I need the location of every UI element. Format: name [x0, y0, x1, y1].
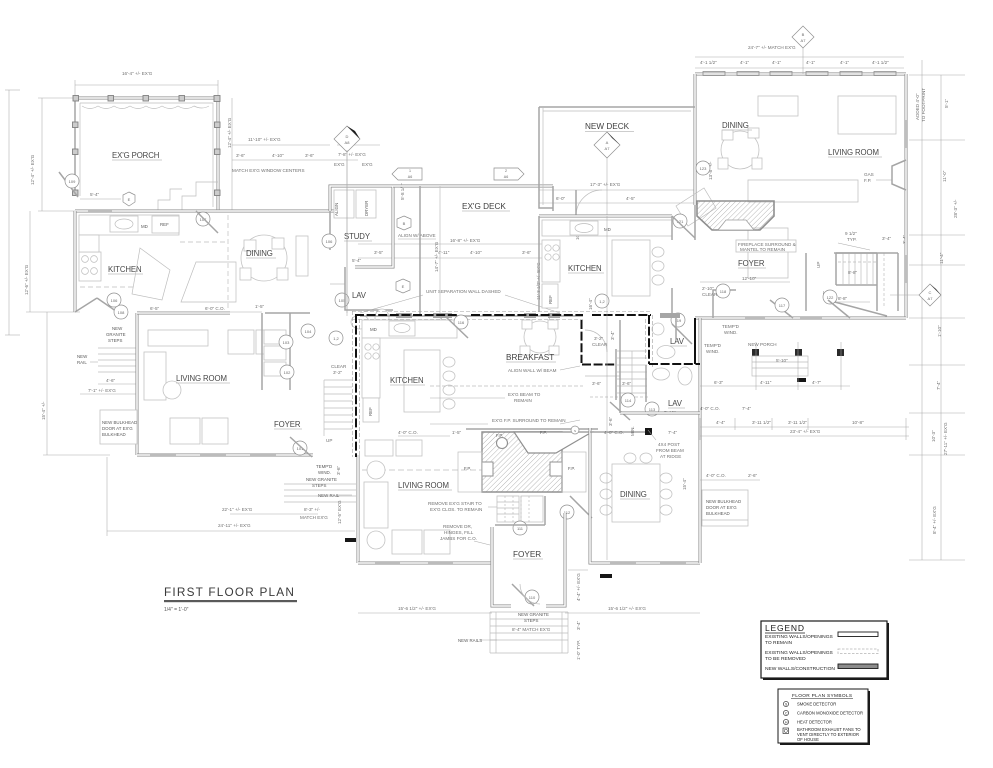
svg-text:4'-1": 4'-1" [840, 60, 850, 65]
diamond A/A7 [594, 132, 620, 158]
kitchen/foyer separation wall right [671, 216, 673, 240]
svg-text:7'-8" +/- EX'G: 7'-8" +/- EX'G [338, 152, 366, 157]
svg-text:B: B [802, 32, 805, 37]
window blocks on separation wall [396, 313, 680, 318]
kitchen top wall [75, 210, 345, 213]
svg-text:3'-5": 3'-5" [374, 250, 384, 255]
svg-text:EX'G CLOS. TO REMAIN: EX'G CLOS. TO REMAIN [430, 507, 482, 512]
svg-text:15'-4": 15'-4" [682, 478, 687, 490]
svg-text:6'-0": 6'-0" [556, 196, 566, 201]
svg-text:8'-4" +/- EX'G: 8'-4" +/- EX'G [932, 506, 937, 534]
svg-text:3'-6": 3'-6" [592, 381, 602, 386]
kitchen counters/appliances [79, 215, 179, 235]
svg-text:7'-4": 7'-4" [742, 406, 752, 411]
unit separation wall flanking dashes [352, 311, 651, 313]
right margin chains [909, 74, 965, 76]
wall horizontal main [355, 314, 459, 316]
svg-text:LAV: LAV [670, 337, 685, 346]
svg-text:DINING: DINING [246, 249, 273, 258]
svg-text:22'-1" +/- EX'G: 22'-1" +/- EX'G [222, 507, 253, 512]
svg-text:TEMP'D: TEMP'D [722, 324, 740, 329]
deck door swing [576, 190, 602, 216]
right wing west wall [699, 318, 702, 413]
svg-text:12'-6" +/- EX'G: 12'-6" +/- EX'G [24, 264, 29, 295]
svg-text:9 1/2": 9 1/2" [845, 231, 857, 236]
svg-text:2'-10": 2'-10" [702, 286, 714, 291]
svg-text:REMOVE DR,: REMOVE DR, [443, 524, 472, 529]
svg-text:4'-0" C.O.: 4'-0" C.O. [706, 473, 726, 478]
dashed removed walls in left unit [227, 215, 229, 310]
svg-text:ALIGN WALL W/ BEAM: ALIGN WALL W/ BEAM [508, 368, 557, 373]
svg-text:MANTEL TO REMAIN: MANTEL TO REMAIN [740, 247, 785, 252]
svg-text:DINING: DINING [722, 121, 749, 130]
svg-text:4'-4": 4'-4" [716, 420, 726, 425]
svg-text:11'-4": 11'-4" [939, 252, 944, 264]
top right dim chain [695, 56, 904, 58]
svg-text:4'-5": 4'-5" [626, 196, 636, 201]
svg-text:3'-6": 3'-6" [522, 250, 532, 255]
svg-text:MD: MD [141, 224, 148, 229]
svg-text:AT RIDGE: AT RIDGE [660, 454, 681, 459]
hall dashes near center stairs [590, 396, 648, 398]
svg-text:UNIT SEPARATION WALL DASHED: UNIT SEPARATION WALL DASHED [426, 289, 501, 294]
svg-text:111: 111 [517, 526, 524, 531]
diamond D/A8 [334, 126, 360, 152]
svg-text:WIND.: WIND. [706, 349, 720, 354]
svg-text:MD: MD [604, 227, 611, 232]
black dash below dining [600, 574, 612, 578]
svg-text:MATCH EX'G WINDOW CENTERS: MATCH EX'G WINDOW CENTERS [232, 168, 305, 173]
svg-text:FLOOR PLAN SYMBOLS: FLOOR PLAN SYMBOLS [792, 693, 852, 699]
hexagon E [396, 279, 410, 293]
legend box [761, 621, 887, 678]
svg-text:4'-10": 4'-10" [272, 153, 284, 158]
svg-text:109: 109 [69, 179, 76, 184]
center stair flight [324, 380, 352, 436]
svg-text:123: 123 [700, 166, 707, 171]
dims above study [330, 159, 358, 161]
right unit top wall [695, 73, 906, 76]
svg-text:STUDY: STUDY [344, 232, 371, 241]
svg-text:10'-3": 10'-3" [931, 430, 936, 442]
svg-text:EXISTING WALLS/OPENINGS: EXISTING WALLS/OPENINGS [765, 650, 833, 656]
dashed beam center living [362, 469, 488, 471]
svg-text:6'-3": 6'-3" [714, 380, 724, 385]
carbon monoxide detector [783, 710, 788, 715]
svg-text:15'-6 1/2" +/- EX'G: 15'-6 1/2" +/- EX'G [398, 606, 436, 611]
svg-text:DOOR AT EX'G: DOOR AT EX'G [102, 426, 133, 431]
svg-text:108: 108 [118, 310, 125, 315]
svg-text:3'-2": 3'-2" [333, 370, 343, 375]
svg-text:4'-1 1/2": 4'-1 1/2" [872, 60, 889, 65]
svg-text:EX'G F.P. SURROUND TO REMAIN: EX'G F.P. SURROUND TO REMAIN [492, 418, 566, 423]
smoke detector circle [571, 426, 579, 434]
living room left block walls [136, 313, 139, 455]
svg-text:3'-4": 3'-4" [576, 620, 581, 630]
living room furniture [148, 330, 208, 346]
lav walls gray [619, 320, 621, 364]
lav left [345, 267, 393, 310]
dining table center [612, 464, 660, 522]
svg-text:A7: A7 [801, 38, 807, 43]
svg-text:5'-4": 5'-4" [90, 192, 100, 197]
top B/A7 diamond [792, 26, 814, 48]
svg-text:5'-1": 5'-1" [944, 98, 949, 108]
hexagon E near kitchen door [123, 192, 135, 206]
svg-text:BREAKFAST: BREAKFAST [506, 353, 554, 362]
door arc foyer center [585, 330, 607, 352]
svg-text:OF HOUSE: OF HOUSE [797, 737, 819, 742]
svg-text:NEW BULKHEAD: NEW BULKHEAD [102, 420, 137, 425]
svg-text:C: C [929, 290, 932, 295]
svg-text:BULKHEAD: BULKHEAD [706, 511, 730, 516]
svg-text:TO FOOTPRINT: TO FOOTPRINT [921, 88, 926, 122]
svg-text:4'-1 1/2": 4'-1 1/2" [700, 60, 717, 65]
svg-text:GAS: GAS [864, 172, 874, 177]
svg-text:7'-4": 7'-4" [936, 380, 941, 390]
svg-text:FOYER: FOYER [738, 259, 765, 268]
wall vertical left of center [355, 314, 357, 457]
svg-text:TEMP'D: TEMP'D [704, 343, 722, 348]
svg-text:4'-11": 4'-11" [760, 380, 772, 385]
bathroom exhaust [783, 728, 789, 734]
svg-text:6'-5": 6'-5" [150, 306, 160, 311]
svg-text:STEPS: STEPS [108, 338, 122, 343]
svg-text:3'-11 1/2": 3'-11 1/2" [788, 420, 807, 425]
svg-text:8'-8": 8'-8" [848, 270, 858, 275]
svg-text:1'-10": 1'-10" [937, 325, 942, 337]
svg-text:CLEAR: CLEAR [331, 364, 347, 369]
study furniture: dryer/washer [334, 190, 354, 218]
svg-text:28'-3" +/-: 28'-3" +/- [953, 199, 958, 218]
svg-text:4X4 POST: 4X4 POST [658, 442, 680, 447]
center kitchen walls: top wall gray under black [360, 315, 583, 317]
new porch [752, 349, 844, 356]
stairs right [838, 253, 884, 308]
svg-text:UP: UP [326, 438, 332, 443]
svg-text:3'-4": 3'-4" [610, 330, 615, 340]
svg-text:REF: REF [160, 222, 169, 227]
svg-text:A6: A6 [504, 175, 508, 179]
kitchen right [539, 215, 672, 218]
granite steps below foyer [490, 612, 568, 653]
svg-text:2'-6": 2'-6" [748, 473, 758, 478]
small foyer closet [713, 290, 736, 318]
svg-text:1,2: 1,2 [599, 299, 605, 304]
svg-text:16'-4" +/- EX'G: 16'-4" +/- EX'G [122, 71, 153, 76]
new deck [539, 107, 553, 208]
svg-text:REF: REF [548, 295, 553, 304]
svg-text:FIRST FLOOR PLAN: FIRST FLOOR PLAN [164, 585, 295, 599]
beam dashed [430, 385, 583, 387]
svg-text:LIVING ROOM: LIVING ROOM [828, 148, 879, 157]
svg-text:EXISTING WALLS/OPENINGS: EXISTING WALLS/OPENINGS [765, 634, 833, 640]
svg-text:122: 122 [827, 295, 834, 300]
svg-text:NEW: NEW [112, 326, 123, 331]
svg-text:GRANITE: GRANITE [106, 332, 126, 337]
closet below fp [497, 496, 519, 522]
svg-text:LEGEND: LEGEND [765, 623, 805, 633]
svg-text:F.P.: F.P. [496, 433, 503, 438]
svg-text:3'-2": 3'-2" [594, 336, 604, 341]
island kitchen left [132, 248, 170, 300]
pentagon labels 1/A6 2/A6 [392, 168, 524, 180]
svg-text:103: 103 [283, 340, 290, 345]
center living room walls [357, 455, 360, 563]
svg-text:2: 2 [505, 169, 507, 173]
svg-text:NEW GRANITE: NEW GRANITE [306, 477, 337, 482]
deck top wall [393, 185, 553, 188]
svg-text:A7: A7 [928, 296, 934, 301]
svg-text:D: D [346, 134, 349, 139]
porch steps to kitchen [182, 182, 218, 211]
left vertical dim kitchen [29, 211, 31, 312]
foyer bump center [492, 527, 511, 606]
svg-text:EX'G: EX'G [334, 162, 345, 167]
breakfast [524, 321, 556, 353]
svg-text:REF: REF [368, 407, 373, 416]
dim line above porch [75, 84, 218, 86]
svg-text:F.P.: F.P. [540, 430, 547, 435]
svg-text:6'-0" C.O.: 6'-0" C.O. [205, 306, 225, 311]
svg-text:NEW GRANITE: NEW GRANITE [518, 612, 549, 617]
C/A7 diamond right [919, 284, 941, 306]
porch corner diagonal + door 109 [59, 172, 78, 197]
svg-text:A6: A6 [408, 175, 412, 179]
closet shelves between dining and foyer [264, 330, 286, 344]
dims above kitchen wall (match exg window centers) [232, 159, 330, 161]
svg-text:DINING: DINING [620, 490, 647, 499]
svg-text:CLEAR: CLEAR [592, 342, 608, 347]
svg-text:1: 1 [409, 169, 411, 173]
svg-text:E: E [128, 197, 131, 202]
svg-text:NEW BULKHEAD: NEW BULKHEAD [706, 499, 741, 504]
4x4 post black square [645, 428, 652, 435]
svg-text:LAV: LAV [668, 399, 683, 408]
svg-text:116: 116 [458, 320, 465, 325]
study walls [330, 186, 393, 267]
svg-text:106: 106 [326, 239, 333, 244]
svg-text:12'-4" +/- EX'G: 12'-4" +/- EX'G [227, 117, 232, 148]
svg-text:12'-4" +/- EX'G: 12'-4" +/- EX'G [30, 154, 35, 185]
lav interior wall [675, 318, 677, 340]
new deck dims [539, 189, 695, 191]
svg-text:8'-3" +/-: 8'-3" +/- [304, 507, 320, 512]
left unit left wall [74, 211, 77, 312]
svg-text:LIVING ROOM: LIVING ROOM [176, 374, 227, 383]
new bulkhead door note box [100, 410, 137, 444]
svg-text:EX'G PORCH: EX'G PORCH [112, 151, 159, 160]
svg-text:15'-4" +/-: 15'-4" +/- [41, 401, 46, 420]
svg-text:F.P.: F.P. [568, 466, 575, 471]
svg-text:4'-0" C.O.: 4'-0" C.O. [398, 430, 418, 435]
svg-text:MD: MD [370, 327, 377, 332]
svg-text:JAMBS FOR C.O.: JAMBS FOR C.O. [440, 536, 477, 541]
svg-text:27'-11" +/- EX'G: 27'-11" +/- EX'G [943, 422, 948, 455]
svg-text:WIND.: WIND. [724, 330, 738, 335]
svg-text:WIND.: WIND. [318, 470, 331, 475]
svg-text:8'-8": 8'-8" [838, 296, 848, 301]
svg-text:TYP.: TYP. [847, 237, 857, 242]
svg-text:16'-8" +/- EX'G: 16'-8" +/- EX'G [450, 238, 481, 243]
fireplace center hatched [466, 428, 598, 430]
svg-text:A7: A7 [605, 146, 611, 151]
svg-text:3'-6": 3'-6" [336, 465, 341, 475]
heat detector [783, 719, 788, 724]
new bulkhead right of dining [702, 490, 748, 526]
room ex'g porch walls [75, 98, 218, 211]
svg-text:10'-8": 10'-8" [852, 420, 864, 425]
svg-text:4'-7": 4'-7" [812, 380, 822, 385]
deck vertical edge lines [419, 186, 421, 316]
svg-text:7'-1" +/- EX'G: 7'-1" +/- EX'G [88, 388, 116, 393]
svg-text:EX'G DECK: EX'G DECK [462, 202, 506, 211]
right unit bottom wall [695, 317, 906, 320]
svg-text:1'-5": 1'-5" [255, 304, 265, 309]
svg-text:HEAT DETECTOR: HEAT DETECTOR [797, 720, 832, 725]
kitchen counters center [362, 320, 457, 338]
svg-text:HINGES, FILL: HINGES, FILL [444, 530, 474, 535]
svg-text:14'-7" +/- EX'G: 14'-7" +/- EX'G [434, 241, 439, 272]
svg-text:3'-6": 3'-6" [305, 153, 315, 158]
svg-text:FOYER: FOYER [274, 420, 301, 429]
svg-text:104: 104 [305, 329, 312, 334]
svg-text:S: S [574, 429, 576, 433]
svg-text:MATCH EX'G: MATCH EX'G [300, 515, 328, 520]
svg-text:17'-3" +/- EX'G: 17'-3" +/- EX'G [590, 182, 621, 187]
svg-text:113: 113 [649, 407, 656, 412]
lav lower-right fixtures [653, 368, 670, 380]
svg-text:B: B [403, 221, 406, 226]
lav upper-right fixtures [652, 323, 664, 335]
svg-text:3'-6": 3'-6" [622, 381, 632, 386]
svg-text:E: E [402, 284, 405, 289]
svg-text:16'-4": 16'-4" [588, 298, 593, 310]
svg-text:3'-11 1/2": 3'-11 1/2" [752, 420, 771, 425]
vertical ref lines through plan [606, 216, 608, 560]
svg-text:KITCHEN: KITCHEN [390, 376, 424, 385]
svg-text:1/4" = 1'-0": 1/4" = 1'-0" [164, 607, 189, 613]
svg-text:106: 106 [111, 298, 118, 303]
far-left margin dim line [8, 90, 10, 335]
svg-text:NEW RAILS: NEW RAILS [458, 638, 482, 643]
symbols shadow [780, 691, 870, 745]
svg-text:STEPS: STEPS [524, 618, 538, 623]
svg-text:NEW PORCH: NEW PORCH [748, 342, 777, 347]
legend shadow [763, 623, 889, 680]
svg-text:RAIL: RAIL [77, 360, 87, 365]
entry stoop steps bottom-left [284, 484, 356, 502]
svg-text:23'-4" +/- EX'G: 23'-4" +/- EX'G [790, 429, 821, 434]
smoke detector [783, 701, 788, 706]
left vertical dim porch [41, 98, 43, 211]
svg-text:11'-0": 11'-0" [942, 170, 947, 182]
bay with new granite steps lower-left [75, 298, 97, 312]
svg-text:8'-4" MATCH EX'G: 8'-4" MATCH EX'G [512, 627, 551, 632]
svg-text:7'-4": 7'-4" [668, 430, 678, 435]
svg-text:ALIGN: ALIGN [334, 203, 339, 216]
right fireplace hatched [697, 201, 774, 230]
svg-text:F.P.: F.P. [864, 178, 871, 183]
svg-text:1,2: 1,2 [333, 336, 339, 341]
svg-text:F.P.: F.P. [464, 466, 471, 471]
svg-text:BULKHEAD: BULKHEAD [102, 432, 126, 437]
svg-text:5'-10": 5'-10" [776, 358, 788, 363]
svg-text:4'-1": 4'-1" [740, 60, 750, 65]
left vertical dim living room [46, 312, 48, 455]
svg-text:4'-6": 4'-6" [106, 378, 116, 383]
svg-text:15'-6 1/2" +/- EX'G: 15'-6 1/2" +/- EX'G [608, 606, 646, 611]
svg-text:4'-10": 4'-10" [470, 250, 482, 255]
svg-text:4'-1": 4'-1" [806, 60, 816, 65]
svg-text:3'-6": 3'-6" [608, 416, 613, 426]
svg-text:1'-0" TYP.: 1'-0" TYP. [576, 640, 581, 660]
svg-text:EX'G: EX'G [362, 162, 373, 167]
svg-text:TO BE REMOVED: TO BE REMOVED [765, 656, 806, 662]
svg-text:3'-4": 3'-4" [882, 236, 892, 241]
svg-text:CLEAR: CLEAR [702, 292, 718, 297]
svg-text:12'-5" EX'G: 12'-5" EX'G [337, 500, 342, 524]
svg-text:LIVING ROOM: LIVING ROOM [398, 481, 449, 490]
porch columns [73, 96, 221, 196]
stair flight right-center (foyer) [617, 351, 647, 398]
svg-text:DRYER: DRYER [364, 201, 369, 216]
hexagon B [397, 216, 411, 230]
svg-text:11'-10" +/- EX'G: 11'-10" +/- EX'G [248, 137, 281, 142]
svg-text:TEMP'D: TEMP'D [316, 464, 332, 469]
dining table left [241, 235, 287, 281]
svg-text:24'-11" +/- EX'G: 24'-11" +/- EX'G [218, 523, 251, 528]
svg-text:4'-1": 4'-1" [772, 60, 782, 65]
svg-text:NEW RAIL: NEW RAIL [318, 493, 340, 498]
right-of-porch vertical dim [231, 98, 233, 211]
svg-text:CARBON MONOXIDE DETECTOR: CARBON MONOXIDE DETECTOR [797, 711, 863, 716]
center island [404, 350, 440, 412]
svg-text:ADDED 4'-0": ADDED 4'-0" [915, 93, 920, 120]
svg-text:FOYER: FOYER [513, 550, 541, 559]
svg-text:114: 114 [625, 398, 632, 403]
svg-text:4'-4" +/- EX'G: 4'-4" +/- EX'G [576, 573, 581, 601]
svg-text:NEW: NEW [77, 354, 88, 359]
stairwell walls right [834, 252, 898, 254]
svg-text:EX'G BEAM TO: EX'G BEAM TO [508, 392, 541, 397]
svg-text:1'-5": 1'-5" [452, 430, 462, 435]
svg-text:LAV: LAV [352, 291, 367, 300]
gas fp niche [892, 160, 906, 190]
wall vertical right [648, 315, 650, 364]
svg-text:4'-0" C.O.: 4'-0" C.O. [700, 406, 720, 411]
symbols box [778, 689, 868, 743]
svg-text:102: 102 [284, 370, 291, 375]
svg-text:TO REMAIN: TO REMAIN [765, 640, 793, 646]
svg-text:UP: UP [816, 262, 821, 268]
svg-text:SMOKE DETECTOR: SMOKE DETECTOR [797, 702, 836, 707]
svg-text:A8: A8 [345, 140, 351, 145]
svg-text:3'-6": 3'-6" [236, 153, 246, 158]
svg-text:118: 118 [720, 289, 727, 294]
dining center walls [590, 428, 700, 563]
svg-text:12'-10": 12'-10" [742, 276, 757, 281]
dining top right: table [721, 131, 759, 169]
svg-text:NEW DECK: NEW DECK [585, 122, 630, 131]
right unit right wall [905, 74, 908, 318]
svg-text:110: 110 [529, 595, 536, 600]
svg-text:REMAIN: REMAIN [514, 398, 532, 403]
svg-text:ALIGN W/ ABOVE: ALIGN W/ ABOVE [398, 233, 436, 238]
living room furniture center [365, 440, 393, 456]
svg-text:KITCHEN: KITCHEN [568, 264, 602, 273]
svg-text:STEPS: STEPS [312, 483, 326, 488]
